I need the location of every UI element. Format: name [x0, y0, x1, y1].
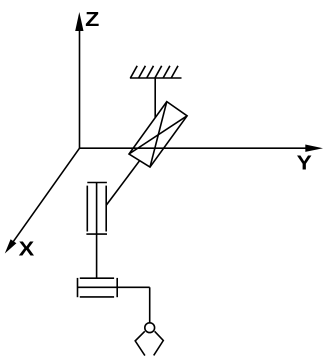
svg-text:Y: Y — [297, 152, 313, 174]
node cylinder right wall — [105, 186, 107, 232]
node ceiling hatch 3 — [147, 66, 154, 78]
svg-text:X: X — [19, 239, 35, 261]
node X-axis arrowhead — [5, 239, 17, 253]
node ceiling hatch 5 — [163, 66, 170, 78]
node gripper right jaw — [154, 331, 164, 355]
node slider left plate — [77, 278, 79, 297]
node ceiling support baseline — [130, 77, 182, 79]
node slider right plate — [116, 278, 118, 297]
wire cylinder piston rod — [96, 183, 98, 278]
node ceiling hatch 4 — [155, 66, 162, 78]
svg-text:Z: Z — [85, 9, 99, 31]
wire joint box diagonal 1 — [150, 102, 167, 168]
node gripper joint circle — [145, 323, 155, 333]
node ceiling hatch 2 — [139, 66, 146, 78]
node slider bottom line — [80, 296, 114, 298]
wire Y-axis line — [80, 147, 309, 149]
wire drop line to gripper — [149, 287, 151, 323]
node joint box (tilted rectangle) — [129, 102, 187, 168]
wire X-axis line — [13, 148, 80, 243]
wire slider rod to the right — [78, 286, 150, 288]
wire Z-axis line — [79, 29, 81, 148]
node ceiling hatch 6 — [171, 66, 178, 78]
wire joint box diagonal 2 — [129, 116, 187, 154]
node slider top line — [80, 277, 114, 279]
node Z-axis arrowhead — [75, 12, 83, 31]
node cylinder left wall — [86, 186, 88, 232]
wire hanger from ceiling to joint box — [154, 78, 156, 118]
node cylinder bottom plate — [86, 233, 107, 235]
node gripper left jaw — [135, 331, 145, 355]
node cylinder top cap — [87, 182, 107, 184]
node Y-axis arrowhead — [305, 145, 323, 152]
wire link from joint box to cylinder — [106, 161, 139, 205]
node ceiling hatch 1 — [130, 66, 137, 78]
